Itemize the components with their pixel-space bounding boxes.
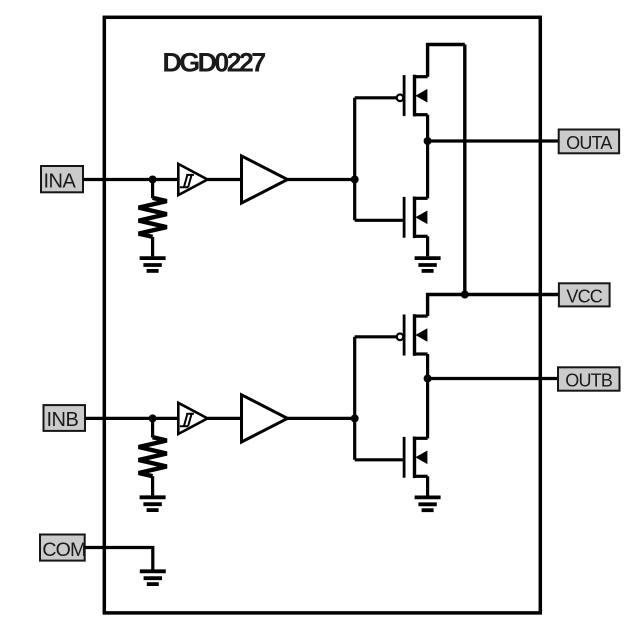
wire Q2 gate (355, 219, 403, 222)
ground (R1) (140, 258, 166, 271)
wire Q1 source to VCC bracket (428, 45, 465, 77)
node OUTB (424, 375, 432, 383)
wire schmitt B to buffer B (208, 417, 242, 420)
wire buffer B to gate split node B (288, 417, 355, 420)
node INA/R1 junction (149, 176, 157, 184)
node gate split A (351, 176, 359, 184)
svg-text:INA: INA (44, 171, 77, 193)
node VCC rail junction (461, 291, 469, 299)
wire INA to schmitt input (83, 178, 180, 181)
pin label INA (41, 166, 83, 193)
svg-text:INB: INB (47, 409, 79, 431)
pin label COM (40, 535, 85, 561)
ground (output stage A) (415, 258, 441, 271)
schmitt trigger B (178, 403, 207, 434)
transistor Q2 NMOS A (404, 197, 428, 239)
wire OUTB (428, 377, 558, 380)
pin label VCC (559, 283, 610, 306)
wire Q1 gate (355, 96, 397, 99)
wire node OUTA to Q2 drain (426, 141, 429, 198)
IC outline (104, 17, 540, 613)
wire Q4 source to ground (426, 476, 429, 495)
wire gate split B vertical (353, 337, 356, 460)
wire Q3 drain to node OUTB (426, 354, 429, 379)
wire OUTA (428, 139, 559, 142)
transistor Q4 NMOS B (404, 437, 428, 479)
node gate split B (351, 414, 359, 422)
wire schmitt A to buffer A (208, 178, 242, 181)
pin label OUTA (559, 130, 619, 154)
ground (R2) (140, 497, 166, 510)
node INB/R2 junction (149, 414, 157, 422)
resistor R2 (139, 418, 167, 495)
svg-text:OUTA: OUTA (566, 133, 612, 153)
wire node OUTB to Q4 drain (426, 379, 429, 439)
wire Q2 source to ground (426, 236, 429, 256)
svg-text:VCC: VCC (566, 287, 602, 307)
wire INB to schmitt input (85, 417, 180, 420)
transistor Q3 PMOS B (397, 314, 428, 356)
svg-text:OUTB: OUTB (565, 371, 613, 391)
schmitt trigger A (178, 164, 207, 195)
wire gate split A vertical (353, 98, 356, 221)
ground (output stage B) (415, 497, 441, 510)
wire COM (85, 548, 153, 570)
wire Q1 drain to node OUTA (426, 115, 429, 141)
ground (COM) (140, 571, 166, 584)
buffer A (242, 156, 288, 203)
wire VCC (428, 295, 559, 317)
pin label INB (44, 405, 86, 431)
wire buffer A to gate split node A (288, 178, 355, 181)
svg-text:COM: COM (42, 539, 85, 561)
svg-text:DGD0227: DGD0227 (162, 48, 265, 78)
transistor Q1 PMOS A (397, 75, 428, 117)
pin label OUTB (558, 367, 620, 390)
wire Q3 gate (355, 335, 397, 338)
buffer B (242, 395, 288, 442)
resistor R1 (139, 180, 167, 257)
node OUTA (424, 137, 432, 145)
VCC rail (463, 45, 466, 295)
wire Q4 gate (355, 458, 403, 461)
